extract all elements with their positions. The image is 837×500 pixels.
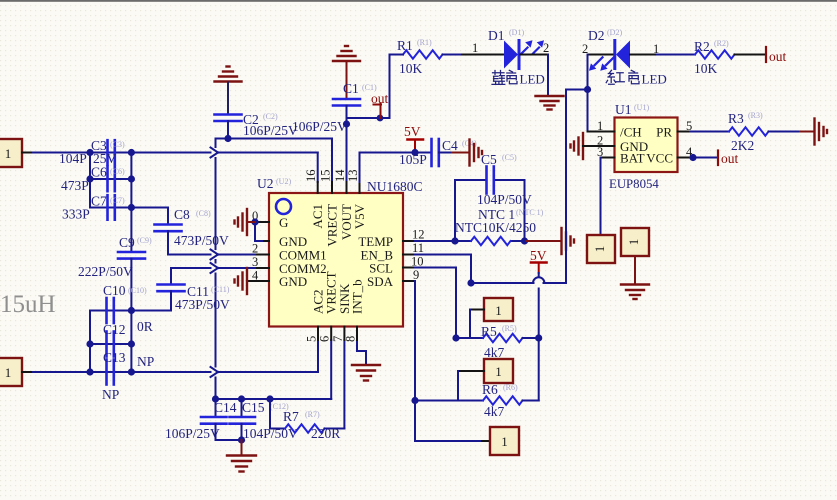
svg-text:C5: C5 xyxy=(481,152,497,167)
hop bus A over COMM1 row xyxy=(211,250,219,260)
capacitor C12 xyxy=(103,319,153,357)
ground below pin8 xyxy=(352,365,380,381)
pin8 jog to ground xyxy=(357,340,366,364)
right bus lower (C9 bottom to port row) xyxy=(130,259,132,372)
port P3 above R5 xyxy=(470,298,513,338)
svg-text:R3: R3 xyxy=(728,111,744,126)
capacitor C5 loop xyxy=(455,180,525,241)
node dots C6 row xyxy=(86,175,93,182)
svg-text:C8: C8 xyxy=(174,207,190,222)
U1 pin names xyxy=(620,125,673,166)
SCL routing xyxy=(415,268,456,339)
U2 top pin names xyxy=(310,203,367,246)
node dot NTC right xyxy=(521,237,528,244)
R3 ground (sideways right) xyxy=(800,131,813,133)
U2 left pin names xyxy=(279,215,327,289)
capacitor C4 xyxy=(399,138,477,167)
svg-text:(R2): (R2) xyxy=(714,39,729,48)
diode D2 (red LED) xyxy=(582,28,659,71)
svg-text:(C9): (C9) xyxy=(137,236,152,245)
D2 cathode riser to junction xyxy=(587,55,589,132)
net label out (VOUT) xyxy=(371,91,389,121)
U2 bottom pin stubs xyxy=(318,327,357,341)
svg-text:VRECT: VRECT xyxy=(325,204,340,247)
svg-text:VCC: VCC xyxy=(646,151,673,166)
svg-text:(D1): (D1) xyxy=(509,28,524,37)
D2 label red LED (CJK 紅色LED) xyxy=(606,70,667,86)
port P7 floating xyxy=(621,228,649,284)
node dot C14 top xyxy=(212,395,219,402)
svg-text:out: out xyxy=(769,49,787,64)
svg-text:2: 2 xyxy=(252,242,258,256)
node dot R7 branch xyxy=(266,395,273,402)
svg-text:(R3): (R3) xyxy=(748,111,763,120)
wire port1 row to AC1 (pin16 riser) xyxy=(33,153,318,183)
svg-text:1: 1 xyxy=(5,146,12,161)
IC U2 NU1680C xyxy=(257,176,423,327)
port P5 at SDA end xyxy=(490,427,519,455)
svg-text:1: 1 xyxy=(495,364,502,379)
svg-text:222P/50V: 222P/50V xyxy=(78,264,133,279)
wire COMM2 row (C11 to pin3) xyxy=(171,267,257,269)
svg-text:(C3): (C3) xyxy=(110,140,125,149)
ground above C1 xyxy=(333,46,360,61)
svg-text:105P: 105P xyxy=(399,152,427,167)
5V riser xyxy=(538,273,540,277)
hop EN_B over 5V riser xyxy=(533,277,544,283)
U2 right pin numbers xyxy=(411,228,425,283)
svg-text:C7: C7 xyxy=(91,194,107,209)
node dot C13 left xyxy=(86,368,93,375)
wire VOUT row to R1 riser xyxy=(347,55,390,183)
svg-text:11: 11 xyxy=(412,241,424,255)
glyph se xyxy=(507,70,517,83)
SDA routing xyxy=(415,281,482,441)
svg-text:AC1: AC1 xyxy=(310,204,325,229)
node dot 5V/V5V row xyxy=(411,149,418,156)
svg-text:10: 10 xyxy=(411,255,424,269)
C1 bottom lead xyxy=(346,106,348,119)
capacitor C1 xyxy=(292,81,377,134)
U2 left pin numbers xyxy=(252,209,259,283)
sideways ground right of C4 xyxy=(470,140,483,166)
node dot C12 left xyxy=(86,340,93,347)
svg-text:(U1): (U1) xyxy=(634,103,649,112)
port P1 (top-left, net 1) xyxy=(0,139,33,167)
node dot C2 bottom xyxy=(224,135,231,142)
svg-text:NTC10K/4250: NTC10K/4250 xyxy=(455,220,536,235)
resistor R1 xyxy=(390,38,463,76)
svg-text:12: 12 xyxy=(412,228,425,242)
svg-text:(NTC 1): (NTC 1) xyxy=(516,208,544,217)
wire COMM1 row (C8 to pin2) xyxy=(168,254,257,256)
U2 right pin stubs xyxy=(403,241,415,281)
wire C12 row xyxy=(90,343,131,345)
U2 top pin stubs xyxy=(318,182,360,193)
port P4 above R6 xyxy=(458,359,513,401)
hop of bus A over port2 row xyxy=(211,367,219,377)
capacitor C10 xyxy=(103,283,147,323)
right bus upper (C3 to C9 top) xyxy=(130,153,132,253)
wire port2 row (AC2 net) xyxy=(33,338,318,372)
resistor R2 xyxy=(657,39,765,76)
svg-text:U2: U2 xyxy=(257,176,274,191)
U2 left pin stubs xyxy=(247,222,269,281)
capacitor C7 xyxy=(62,194,125,222)
ground below D1 xyxy=(536,96,564,110)
capacitor C13 xyxy=(102,350,154,402)
TEMP row wire xyxy=(415,240,525,242)
capacitor C5 xyxy=(455,152,544,235)
svg-text:D2: D2 xyxy=(588,28,605,43)
top window edge xyxy=(0,0,837,2)
svg-text:(U2): (U2) xyxy=(276,177,291,186)
pin7 riser xyxy=(343,340,345,429)
node dot D2/EN_B/U1 junction xyxy=(584,86,591,93)
svg-text:R2: R2 xyxy=(694,39,710,54)
C1 top stem xyxy=(346,62,348,99)
node dot VOUT junction xyxy=(343,120,350,127)
glyph hong xyxy=(606,70,624,84)
node dot C7 right xyxy=(128,204,135,211)
bus A vertical (VRECT net riser) xyxy=(215,139,217,400)
svg-text:4k7: 4k7 xyxy=(484,404,505,419)
glyph se xyxy=(629,70,639,83)
svg-text:3: 3 xyxy=(252,255,258,269)
svg-text:(C7): (C7) xyxy=(110,196,125,205)
svg-text:(R7): (R7) xyxy=(305,410,320,419)
C4 right lead to ground xyxy=(439,152,452,154)
wire C10 row / C11 bottom xyxy=(90,310,171,312)
svg-text:R5: R5 xyxy=(481,324,497,339)
port P2 (bottom-left, net 1) xyxy=(0,358,33,386)
NTC right lead to ground xyxy=(525,240,561,242)
node dot C13 right xyxy=(128,368,135,375)
node dot C12 right xyxy=(128,340,135,347)
svg-text:1: 1 xyxy=(592,246,607,253)
wire VRECT row to pin15 xyxy=(216,139,333,183)
capacitor C9 (in series on right bus) xyxy=(78,235,152,279)
pin13 riser to 5V row xyxy=(359,153,361,183)
capacitor C15 xyxy=(230,400,299,441)
LED arrows (down-left) xyxy=(595,57,614,65)
left bus lower segment xyxy=(89,311,91,373)
resistor R7 xyxy=(270,399,344,441)
svg-text:0R: 0R xyxy=(137,319,153,334)
svg-text:(R1): (R1) xyxy=(417,38,432,47)
svg-text:(R5): (R5) xyxy=(502,324,517,333)
svg-text:106P/25V: 106P/25V xyxy=(165,426,220,441)
svg-text:473P: 473P xyxy=(61,178,89,193)
node dot SDA/R6 junction xyxy=(411,397,418,404)
wire C6 row xyxy=(90,178,131,180)
svg-text:R1: R1 xyxy=(397,38,413,53)
svg-text:C6: C6 xyxy=(91,165,107,180)
svg-text:/CH: /CH xyxy=(620,125,642,140)
svg-text:15uH: 15uH xyxy=(0,291,56,318)
svg-text:4k7: 4k7 xyxy=(484,345,505,360)
wire V5V row to C4 xyxy=(360,152,431,154)
capacitor C2 xyxy=(215,112,299,138)
capacitor C14 xyxy=(165,400,237,441)
svg-text:C12: C12 xyxy=(103,322,126,337)
capacitor C8 xyxy=(155,207,230,255)
resistor R3 xyxy=(728,111,800,153)
svg-text:1: 1 xyxy=(472,41,478,55)
node dot 5V riser/R5 right xyxy=(535,334,542,341)
svg-text:9: 9 xyxy=(413,268,419,282)
node dot C3 right xyxy=(128,149,135,156)
node dot C15 top xyxy=(238,395,245,402)
ground below P7 xyxy=(621,285,649,300)
svg-text:out: out xyxy=(371,91,389,106)
svg-text:1: 1 xyxy=(626,239,641,246)
svg-text:C14: C14 xyxy=(214,400,237,415)
svg-text:C15: C15 xyxy=(242,400,265,415)
svg-text:V5V: V5V xyxy=(352,203,367,229)
node dot C14/C15 ground junction xyxy=(238,436,245,443)
D1 cathode wire to ground xyxy=(521,54,549,56)
capacitor C11 xyxy=(158,268,231,312)
svg-text:1: 1 xyxy=(495,303,502,318)
svg-text:(C6): (C6) xyxy=(110,167,125,176)
svg-text:BAT: BAT xyxy=(620,151,645,166)
svg-text:5: 5 xyxy=(305,336,319,342)
svg-text:16: 16 xyxy=(304,170,318,183)
svg-text:out: out xyxy=(721,151,739,166)
svg-text:C1: C1 xyxy=(343,81,359,96)
svg-text:333P: 333P xyxy=(62,207,90,222)
svg-text:1: 1 xyxy=(501,434,508,449)
net label out (R2 right) xyxy=(766,47,787,64)
diode D1 (blue LED) xyxy=(462,28,549,69)
glyph lan xyxy=(492,71,505,85)
U1 pin3 wire to BAT port xyxy=(601,157,615,159)
svg-text:R6: R6 xyxy=(482,382,498,397)
svg-text:(R6): (R6) xyxy=(503,383,518,392)
G pin to GND pin link xyxy=(255,222,262,241)
svg-text:(C11): (C11) xyxy=(211,285,230,294)
wire C7 row to C8 riser xyxy=(90,207,168,209)
capacitor C6 xyxy=(61,165,125,194)
svg-text:PR: PR xyxy=(656,125,672,140)
svg-text:15: 15 xyxy=(319,170,333,183)
svg-text:NP: NP xyxy=(102,387,119,402)
U1 pin1 stub xyxy=(588,131,615,133)
svg-text:D1: D1 xyxy=(488,28,505,43)
svg-text:104P/50V: 104P/50V xyxy=(477,192,532,207)
svg-text:106P/25V: 106P/25V xyxy=(243,123,298,138)
D1 label blue LED (CJK 藍色LED) xyxy=(492,70,545,86)
svg-text:INT_b: INT_b xyxy=(350,279,365,314)
svg-text:2: 2 xyxy=(543,41,549,55)
svg-text:8: 8 xyxy=(344,336,358,342)
svg-text:C10: C10 xyxy=(103,283,126,298)
svg-text:(C10): (C10) xyxy=(128,286,147,295)
port P6 BAT xyxy=(587,235,615,263)
svg-text:C4: C4 xyxy=(442,138,458,153)
svg-text:473P/50V: 473P/50V xyxy=(174,233,229,248)
svg-text:(C8): (C8) xyxy=(196,209,211,218)
svg-text:5V: 5V xyxy=(530,248,547,263)
C2 bottom lead xyxy=(227,121,229,139)
ground below C15 xyxy=(227,440,256,472)
ground above C2 xyxy=(215,67,242,82)
svg-text:(D2): (D2) xyxy=(607,28,622,37)
thermistor NTC1 zigzag xyxy=(471,237,511,245)
U1 pin4 wire and out label xyxy=(678,157,691,159)
EN_B routing xyxy=(415,90,588,284)
svg-text:14: 14 xyxy=(333,169,347,182)
svg-text:10K: 10K xyxy=(694,61,718,76)
wire C14/C15 bottom row xyxy=(216,439,242,441)
node dot NTC left xyxy=(451,237,458,244)
wire VRECT bottom row (C14/C15/R7/pin6) xyxy=(216,340,332,417)
U2 bottom pin numbers xyxy=(305,336,358,342)
5V power port above R5 xyxy=(530,248,547,273)
svg-text:NP: NP xyxy=(137,354,154,369)
capacitor C3 xyxy=(59,138,125,166)
U2 top pin numbers xyxy=(304,169,360,182)
svg-text:5V: 5V xyxy=(404,124,421,139)
svg-text:473P/50V: 473P/50V xyxy=(175,297,230,312)
svg-text:104P: 104P xyxy=(59,151,87,166)
LED arrows xyxy=(521,48,539,55)
svg-text:106P/25V: 106P/25V xyxy=(292,119,347,134)
node dot C10 right xyxy=(128,307,135,314)
svg-text:10K: 10K xyxy=(399,61,423,76)
U1 pin2 ground xyxy=(571,133,584,159)
sideways ground right of NTC xyxy=(562,228,575,254)
svg-text:U1: U1 xyxy=(615,102,632,117)
svg-text:EUP8054: EUP8054 xyxy=(609,177,659,191)
resistor R5 xyxy=(456,324,539,360)
svg-text:SDA: SDA xyxy=(367,274,394,289)
svg-text:(C5): (C5) xyxy=(502,153,517,162)
node dot VCC out xyxy=(689,154,696,161)
svg-text:C13: C13 xyxy=(103,350,126,365)
C2 top stem xyxy=(227,83,229,115)
U2 right pin names xyxy=(358,234,393,289)
svg-text:C9: C9 xyxy=(119,235,135,250)
U1 pin numbers xyxy=(597,119,693,159)
svg-text:GND: GND xyxy=(279,274,307,289)
svg-text:1: 1 xyxy=(5,365,12,380)
svg-text:NU1680C: NU1680C xyxy=(367,179,423,194)
hop of bus A over port1 row xyxy=(211,148,219,158)
node dot G pin xyxy=(251,218,258,225)
U2 bottom pin names xyxy=(311,271,365,314)
U1 pin5 to R3 xyxy=(678,131,691,133)
svg-text:G: G xyxy=(279,215,288,230)
svg-text:R7: R7 xyxy=(283,409,299,424)
svg-text:6: 6 xyxy=(318,336,332,342)
node dot SCL/R5 left xyxy=(452,334,459,341)
5V power port at V5V row xyxy=(404,124,423,153)
IC U1 EUP8054 xyxy=(609,102,678,191)
svg-text:LED: LED xyxy=(520,72,545,87)
hop bus A over COMM2 row xyxy=(211,263,219,273)
node dot EN_B corner xyxy=(467,279,474,286)
left bus upper segment xyxy=(89,153,91,208)
svg-text:13: 13 xyxy=(346,170,360,183)
node dot C3 left bus top xyxy=(86,149,93,156)
svg-text:220R: 220R xyxy=(311,426,340,441)
svg-text:(C2): (C2) xyxy=(263,112,278,121)
sideways ground at G pin xyxy=(235,209,256,235)
svg-text:LED: LED xyxy=(642,72,667,87)
resistor R6 xyxy=(415,382,539,419)
sideways ground at pin4 GND xyxy=(235,268,248,294)
